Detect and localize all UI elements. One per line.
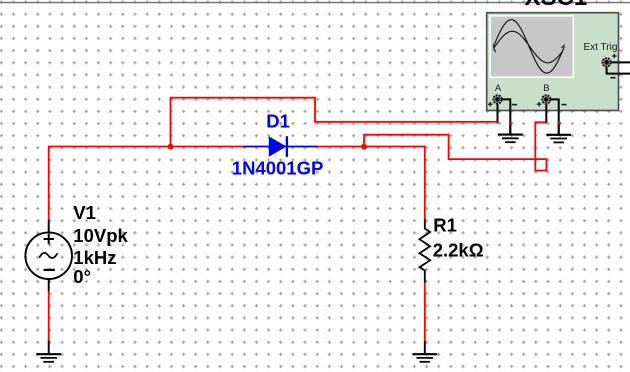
- minus mark channel A: [512, 104, 517, 106]
- plus mark Ext Trig: [612, 54, 617, 59]
- plus mark channel B: [537, 102, 542, 107]
- ground scope A: [498, 121, 523, 142]
- net dot A minus: [509, 121, 512, 124]
- svg-text:XSC1: XSC1: [525, 0, 588, 11]
- net dot B minus: [558, 121, 561, 124]
- svg-text:1kHz: 1kHz: [73, 247, 116, 268]
- minus mark Ext Trig: [610, 77, 615, 79]
- connector channel A: [493, 95, 501, 103]
- ground R1: [412, 341, 437, 362]
- svg-text:1N4001GP: 1N4001GP: [232, 158, 324, 179]
- wire V1 minus to ground: [48, 291, 50, 343]
- svg-text:10Vpk: 10Vpk: [73, 225, 128, 246]
- ground V1: [36, 341, 61, 362]
- waveform trace channel A: [494, 20, 565, 74]
- svg-text:V1: V1: [73, 202, 96, 223]
- svg-text:2.2kΩ: 2.2kΩ: [433, 240, 484, 261]
- voltage source V1 symbol: [25, 220, 72, 291]
- svg-text:0°: 0°: [73, 266, 91, 287]
- oscilloscope XSC1 body: [487, 13, 619, 111]
- wire scope A minus: [502, 99, 511, 134]
- diode D1 symbol: [244, 136, 318, 157]
- ground scope B: [546, 121, 571, 142]
- svg-text:Ext Trig: Ext Trig: [584, 42, 618, 53]
- junction node A: [168, 144, 174, 150]
- svg-text:A: A: [495, 83, 502, 94]
- svg-text:D1: D1: [266, 110, 290, 131]
- resistor R1 symbol: [420, 219, 431, 282]
- junction node B: [361, 144, 367, 150]
- wire node B to scope channel B input: [364, 122, 546, 170]
- waveform trace channel B: [494, 31, 562, 63]
- connector channel B: [542, 95, 550, 103]
- minus mark channel B: [562, 104, 567, 106]
- wire V1 plus to D1 anode: [49, 147, 244, 220]
- wire R1 to ground: [424, 282, 426, 342]
- wire node A to scope channel A input: [171, 98, 498, 147]
- wire Ext Trig plus: [611, 61, 630, 63]
- waveform end ticks: [493, 45, 565, 55]
- wire Ext Trig minus: [607, 67, 630, 74]
- wire scope B plus: [545, 104, 547, 123]
- svg-text:B: B: [543, 83, 549, 94]
- wire D1 cathode to R1: [317, 147, 425, 220]
- connector Ext Trig: [603, 58, 611, 66]
- wire scope A plus: [497, 104, 499, 123]
- svg-text:R1: R1: [433, 214, 457, 235]
- plus mark channel A: [488, 102, 493, 107]
- wire scope B minus: [550, 99, 558, 134]
- oscilloscope screen: [490, 15, 575, 78]
